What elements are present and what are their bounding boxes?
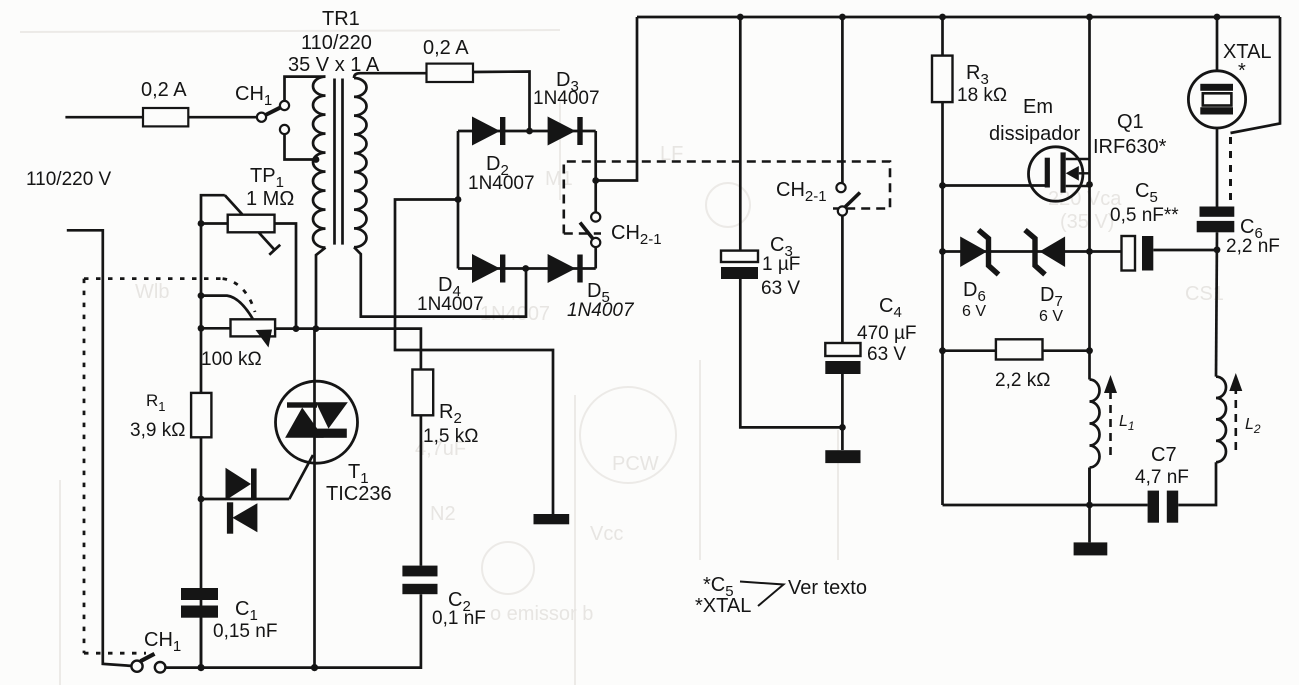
svg-text:470 µF: 470 µF: [857, 323, 917, 344]
svg-text:0,2 A: 0,2 A: [141, 79, 187, 101]
svg-text:1N4007: 1N4007: [567, 300, 635, 321]
svg-text:0,2 A: 0,2 A: [423, 37, 469, 59]
svg-text:63 V: 63 V: [867, 344, 906, 365]
svg-text:18 kΩ: 18 kΩ: [957, 85, 1007, 106]
svg-text:4,7 nF: 4,7 nF: [1135, 467, 1189, 488]
svg-text:Ver texto: Ver texto: [788, 577, 867, 599]
svg-text:dissipador: dissipador: [989, 123, 1081, 145]
svg-text:0,15 nF: 0,15 nF: [213, 621, 277, 642]
svg-text:M1: M1: [545, 168, 573, 190]
svg-text:0,1 nF: 0,1 nF: [432, 608, 486, 629]
svg-text:1 µF: 1 µF: [762, 254, 800, 275]
svg-text:1 MΩ: 1 MΩ: [246, 188, 294, 210]
svg-text:0,5 nF**: 0,5 nF**: [1110, 205, 1179, 226]
svg-text:6 V: 6 V: [962, 303, 986, 320]
svg-text:6 V: 6 V: [1039, 308, 1063, 325]
svg-text:35 V x 1 A: 35 V x 1 A: [288, 54, 380, 76]
svg-text:1N4007: 1N4007: [533, 88, 600, 109]
svg-text:Q1: Q1: [1117, 111, 1144, 133]
svg-text:XTAL: XTAL: [1223, 41, 1272, 63]
svg-text:110/220 V: 110/220 V: [26, 169, 112, 190]
svg-text:Wlb: Wlb: [135, 281, 169, 303]
svg-text:63 V: 63 V: [761, 278, 800, 299]
svg-text:CS1: CS1: [1185, 283, 1224, 305]
svg-text:IRF630*: IRF630*: [1093, 136, 1167, 158]
svg-text:Vcc: Vcc: [590, 523, 623, 545]
svg-text:C7: C7: [1151, 444, 1177, 466]
svg-text:PCW: PCW: [612, 453, 659, 475]
svg-text:o emissor b: o emissor b: [490, 603, 593, 625]
svg-text:3,9 kΩ: 3,9 kΩ: [130, 420, 185, 441]
svg-text:1,5 kΩ: 1,5 kΩ: [423, 426, 478, 447]
svg-text:2,2 kΩ: 2,2 kΩ: [995, 370, 1050, 391]
svg-text:*XTAL: *XTAL: [695, 595, 751, 617]
svg-text:*: *: [1238, 60, 1246, 82]
svg-text:2,2 nF: 2,2 nF: [1226, 236, 1280, 257]
svg-text:100 kΩ: 100 kΩ: [201, 349, 262, 370]
svg-text:1N4007: 1N4007: [417, 294, 484, 315]
svg-text:110/220: 110/220: [301, 32, 372, 54]
svg-text:(35 V): (35 V): [1060, 211, 1114, 233]
svg-text:N2: N2: [430, 503, 456, 525]
svg-text:Em: Em: [1023, 96, 1053, 118]
svg-text:TR1: TR1: [322, 8, 360, 30]
svg-text:1N4007: 1N4007: [468, 173, 535, 194]
svg-text:TIC236: TIC236: [326, 483, 392, 505]
svg-text:1N4007: 1N4007: [480, 303, 550, 325]
